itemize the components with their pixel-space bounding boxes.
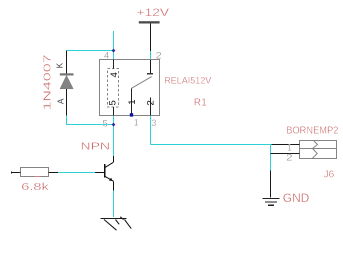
diode anode lead	[66, 89, 68, 116]
relay pin 3 lead	[150, 98, 152, 116]
transistor collector vertical	[113, 156, 115, 162]
diode cathode lead	[66, 51, 68, 74]
ground GND bar 3	[268, 204, 274, 206]
svg-text:BORNEMP2: BORNEMP2	[286, 126, 338, 137]
transistor emitter vertical	[113, 181, 115, 190]
wire branch down to GND	[270, 145, 272, 171]
wire +12V to relay pin 2	[150, 24, 152, 73]
wire cyan stub on pin 2	[150, 51, 152, 60]
svg-text:R1: R1	[194, 96, 207, 108]
svg-text:1: 1	[127, 99, 138, 104]
wire emitter to chassis ground	[113, 191, 115, 218]
svg-text:1: 1	[134, 117, 138, 128]
svg-text:2: 2	[146, 100, 157, 105]
relay coil dashed box	[108, 69, 119, 108]
chassis ground hatch middle	[116, 220, 120, 225]
resistor left lead	[11, 172, 21, 174]
relay common pin 1 lead	[131, 88, 133, 115]
relay coil pin 5 lead	[113, 107, 115, 116]
chassis ground bar	[101, 218, 127, 220]
svg-text:A: A	[56, 98, 65, 104]
transistor collector diagonal	[105, 162, 114, 168]
transistor emitter diagonal	[105, 176, 114, 181]
ground GND bar 2	[265, 201, 277, 203]
diode cathode bar	[60, 73, 74, 75]
wire diode anode elbow to pin 5	[67, 116, 114, 125]
svg-text:J6: J6	[324, 170, 335, 181]
wire diode cathode to relay pin 4	[67, 50, 114, 52]
svg-text:1N4007: 1N4007	[42, 54, 53, 111]
connector J6 divider	[300, 148, 337, 150]
svg-text:6.8k: 6.8k	[21, 181, 50, 193]
wire pin 5 down to transistor collector	[113, 116, 115, 157]
wire relay pin 3 down	[150, 116, 152, 145]
relay switch pin 2 lead and contact	[147, 73, 153, 75]
connector J6 body	[300, 141, 337, 159]
relay U1 body box	[100, 60, 160, 116]
wire vertical at pin 4	[113, 31, 115, 60]
chassis ground tick above	[120, 217, 123, 220]
ground GND pin lead	[270, 171, 272, 198]
resistor right lead	[49, 172, 59, 174]
transistor base lead	[95, 172, 105, 174]
svg-text:4: 4	[104, 51, 110, 62]
wire relay pin 3 to connector J6 pin 1	[151, 144, 272, 146]
svg-text:+12V: +12V	[137, 7, 170, 19]
ground GND bar 1	[263, 198, 280, 200]
transistor base bar	[104, 164, 106, 178]
chassis ground hatch right	[125, 220, 132, 229]
svg-text:NPN: NPN	[81, 141, 111, 153]
svg-text:K: K	[55, 62, 64, 68]
svg-text:2: 2	[156, 51, 162, 62]
junction pin 1 blue square	[130, 113, 133, 116]
relay coil pin 4 lead	[113, 60, 115, 69]
svg-text:GND: GND	[283, 191, 310, 205]
connector J6 pin 1 lead	[272, 144, 300, 146]
svg-text:RELAI512V: RELAI512V	[164, 75, 212, 86]
connector J6 zigzag	[312, 141, 317, 159]
power symbol +12V bar	[139, 21, 160, 23]
junction pin 4 node	[112, 49, 116, 53]
resistor red smudge	[35, 176, 40, 178]
transistor emitter arrow	[109, 178, 113, 181]
connector J6 pin 2 lead	[271, 153, 300, 155]
wire resistor to base	[58, 172, 95, 174]
resistor R2 body	[21, 168, 49, 177]
svg-text:5: 5	[103, 118, 108, 129]
svg-text:3: 3	[152, 118, 157, 129]
svg-text:4: 4	[109, 72, 120, 77]
chassis ground hatch long	[104, 220, 117, 231]
diode triangle	[60, 76, 73, 89]
junction pin 5 node	[112, 123, 116, 127]
relay switch arm	[132, 77, 152, 89]
svg-text:5: 5	[108, 100, 119, 105]
resistor left pin tick	[11, 172, 13, 174]
svg-text:2: 2	[286, 153, 292, 164]
